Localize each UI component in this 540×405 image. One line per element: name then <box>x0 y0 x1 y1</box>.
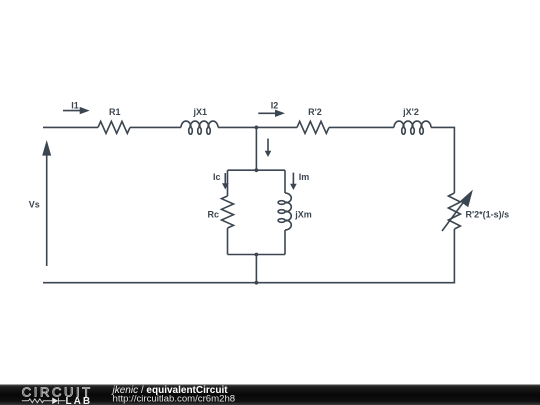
svg-text:Vs: Vs <box>29 200 40 210</box>
wire Rc branch bottom <box>227 228 229 255</box>
svg-text:R'2*(1-s)/s: R'2*(1-s)/s <box>466 209 510 219</box>
parallel bottom rail <box>228 254 286 256</box>
inductor jX1 <box>181 121 218 134</box>
svg-text:Ic: Ic <box>213 172 221 182</box>
arrow I1 line <box>63 110 81 112</box>
wire R'2 to jX'2 <box>329 126 394 128</box>
arrow Vs head <box>42 140 51 156</box>
junction dot shunt bottom <box>255 253 259 257</box>
arrow shunt current line <box>267 139 269 153</box>
junction dot shunt top <box>255 168 259 172</box>
arrow Ic line <box>224 173 226 185</box>
svg-text:Rc: Rc <box>208 210 220 220</box>
arrow shunt current head <box>265 151 272 157</box>
arrow I1 head <box>80 107 90 114</box>
wire R1 to jX1 <box>130 126 181 128</box>
rheostat R'2*(1-s)/s zigzag <box>448 193 460 229</box>
arrow Im head <box>290 184 297 190</box>
wire Rc branch top <box>227 170 229 196</box>
svg-text:Im: Im <box>299 172 310 182</box>
wire shunt bottom <box>255 255 257 283</box>
rheostat arrow line <box>442 202 464 232</box>
svg-text:http://circuitlab.com/cr6m2h8: http://circuitlab.com/cr6m2h8 <box>113 394 236 405</box>
wire shunt top <box>255 127 257 170</box>
logo diode triangle <box>52 398 58 405</box>
wire jX'2 to right corner down <box>431 127 454 193</box>
arrow Ic head <box>222 183 229 189</box>
svg-text:jX'2: jX'2 <box>402 107 419 117</box>
arrow Im line <box>292 173 294 185</box>
svg-text:I2: I2 <box>271 100 279 110</box>
inductor jX'2 <box>394 121 431 134</box>
resistor Rc <box>222 196 234 228</box>
wire jX1 to R'2 <box>218 126 297 128</box>
svg-text:R1: R1 <box>109 107 121 117</box>
wire top-left segment <box>43 126 98 128</box>
inductor jXm <box>278 193 291 230</box>
arrow I2 head <box>275 110 285 117</box>
logo resistor-diode squiggle <box>22 398 66 404</box>
svg-text:jX1: jX1 <box>193 107 208 117</box>
arrow Vs line <box>46 154 48 266</box>
svg-text:jXm: jXm <box>294 210 312 220</box>
svg-text:I1: I1 <box>71 100 79 110</box>
rheostat arrow head <box>460 190 473 208</box>
parallel top rail <box>228 169 286 171</box>
svg-text:LAB: LAB <box>66 396 93 405</box>
node junction dot top <box>255 126 259 130</box>
arrow I2 line <box>258 112 277 114</box>
wire jXm branch top <box>284 170 286 193</box>
wire jXm branch bottom <box>284 230 286 255</box>
wire rheostat to bottom rail <box>43 229 454 283</box>
junction dot bottom rail <box>255 281 259 285</box>
resistor R'2 <box>297 121 329 133</box>
svg-text:R'2: R'2 <box>308 107 322 117</box>
resistor R1 <box>98 121 130 133</box>
